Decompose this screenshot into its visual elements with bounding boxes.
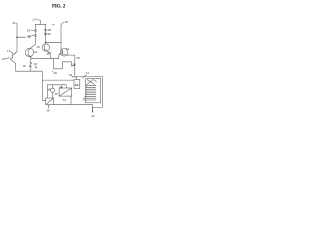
wire bottom rail 3 [54,104,93,106]
wire input vertical [60,26,62,51]
svg-text:50: 50 [54,92,58,96]
wire long vertical [53,59,55,69]
lead line 32 [35,66,36,68]
wire lamp feed [47,84,66,86]
lamp L1 [51,88,55,92]
zener Z1 symbol [29,63,32,66]
lead line 18 [61,22,64,26]
box with diagonal U1 [59,86,72,96]
svg-text:AC: AC [75,83,79,87]
wire top stub [40,21,42,25]
wire emitter rail [32,58,59,60]
svg-text:46: 46 [53,71,57,75]
node junction [16,36,18,38]
wire collector drop [74,55,76,76]
lead line 23 [37,19,41,20]
svg-text:12: 12 [7,49,11,53]
svg-text:34: 34 [12,21,16,25]
capacitor C1 plates [34,30,37,31]
wire emitter drop [30,59,32,71]
lead line 12 [11,52,13,53]
arrowhead [92,111,94,113]
resistor ticks R1 [44,29,47,30]
wire box1 stub [70,96,72,105]
svg-text:48: 48 [59,86,63,90]
svg-text:22: 22 [66,47,70,51]
svg-text:38: 38 [72,62,76,66]
svg-text:66: 66 [48,88,52,92]
arrowhead 32 [36,67,37,68]
svg-text:40: 40 [91,114,95,118]
transistor Q2 [25,44,35,58]
transistor Q1 [10,52,17,72]
svg-text:20: 20 [47,52,51,56]
svg-text:56: 56 [46,109,50,113]
svg-text:10: 10 [23,64,27,68]
transistor Q4 [59,49,75,59]
wire top rail [35,23,45,25]
svg-text:30: 30 [48,32,52,36]
lead line 46 [52,71,55,72]
node dot collector Q3 [45,41,47,43]
transistor Q3 [42,44,51,59]
svg-text:32: 32 [34,62,38,66]
wire solenoid top [77,76,103,78]
svg-text:16: 16 [36,45,40,49]
svg-text:74: 74 [85,71,89,75]
wire bottom rail left [16,70,43,72]
box with diagonal U2 [46,98,54,105]
wire hop branch [54,62,75,69]
wire left vertical [16,24,18,52]
svg-text:23: 23 [32,17,36,21]
solenoid body [83,79,101,103]
label 56 arrow [47,105,50,108]
svg-text:18: 18 [64,20,68,24]
wire left branch [34,24,36,44]
wire lamp leads [52,85,54,98]
wire inner drop [42,80,47,100]
AC source box [74,77,80,89]
lead line 24 [31,29,33,31]
lead line 34 [15,23,18,24]
svg-text:70: 70 [68,73,72,77]
svg-text:14: 14 [34,50,38,54]
svg-text:24: 24 [27,28,31,32]
resistor ticks R2 [44,33,47,34]
lead line 10 [5,57,10,60]
wire to arrow [92,105,94,113]
switch terminal tick [52,24,54,26]
wire right branch [45,24,47,44]
lead line 26 [31,35,33,37]
wire branch 36 [17,36,26,38]
lead line 74 [83,75,87,78]
svg-text:54: 54 [62,98,66,102]
svg-text:58: 58 [76,56,80,60]
lead line 70 [71,75,73,77]
wire down step [41,71,43,80]
svg-text:10: 10 [2,57,6,61]
capacitor C2 plates [34,35,37,36]
svg-text:FIG. 2: FIG. 2 [52,4,66,9]
wire cross link [46,41,61,43]
wire solenoid out [93,77,103,113]
svg-text:26: 26 [27,34,31,38]
wire bottom rail 2 [42,79,74,81]
